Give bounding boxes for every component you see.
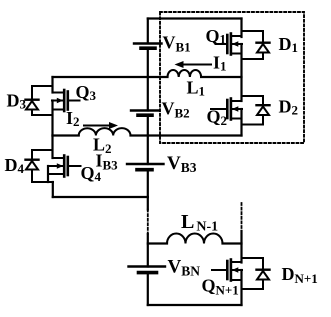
wire top rail node n0	[148, 17, 242, 19]
diode D4 anode lead	[32, 170, 53, 183]
wire battery column VB2 to node n2	[147, 115, 149, 135]
svg-text:LN-1: LN-1	[181, 211, 218, 235]
battery VB3	[127, 164, 164, 170]
svg-text:D3: D3	[7, 91, 27, 112]
diode D3 cathode lead	[32, 86, 53, 100]
wire battery column to VBN	[147, 234, 149, 267]
inductor L2	[79, 128, 131, 135]
diode D2 anode lead	[242, 115, 264, 125]
dotted module box	[160, 12, 304, 143]
wire Q4 source tie	[47, 166, 49, 182]
wire battery column below n3	[147, 197, 149, 210]
wire switch node column (Q1 source to Q2 drain)	[240, 44, 242, 101]
transistor Q_{N+1}	[212, 260, 242, 281]
wire Q_{N+1} source tie to bottom rail	[240, 270, 242, 305]
diode D_{N+1} anode lead	[242, 280, 264, 290]
diode D_{N+1}	[257, 270, 270, 280]
svg-text:VB2: VB2	[162, 99, 190, 121]
svg-text:VB1: VB1	[163, 33, 191, 55]
svg-text:L1: L1	[187, 78, 206, 99]
transistor Q1	[216, 34, 243, 55]
svg-text:Q3: Q3	[76, 82, 97, 103]
diode D3	[26, 100, 39, 110]
wire Q4 source to node n3	[52, 182, 54, 197]
transistor Q4	[48, 156, 81, 177]
svg-text:DN+1: DN+1	[282, 264, 318, 286]
wire Q2 source tie to node n2	[240, 109, 242, 136]
svg-text:D4: D4	[5, 155, 25, 176]
svg-text:VBN: VBN	[168, 257, 201, 279]
battery VB1	[134, 44, 162, 49]
svg-text:Q1: Q1	[206, 26, 227, 47]
svg-text:I2: I2	[66, 108, 80, 129]
wire battery column VB1 to node n1	[147, 48, 149, 77]
transistor Q2	[211, 99, 242, 120]
wire node n1 rail (left module top rail to L1)	[53, 76, 168, 78]
current arrow I2	[84, 122, 118, 129]
wire left column Q3 source to node n2	[51, 101, 53, 136]
wire battery column VB3 to node n3	[147, 170, 149, 197]
diode D1 anode lead	[242, 53, 264, 60]
inductor L_{N-1}	[167, 234, 223, 244]
wire left column drain segment Q3	[51, 77, 53, 93]
dotted continuation battery column	[147, 210, 149, 235]
wire node n3 rail (left module bottom rail)	[53, 196, 148, 198]
wire right column to Q_{N+1} drain	[240, 231, 242, 263]
inductor L1	[168, 70, 202, 77]
svg-text:D1: D1	[279, 34, 299, 55]
diode D3 anode lead	[32, 110, 53, 116]
wire battery column VBN to bottom rail	[147, 273, 149, 305]
diode D2	[257, 105, 270, 115]
wire battery column n1 to VB2	[147, 77, 149, 111]
diode D4 cathode lead	[32, 150, 53, 160]
wire battery column top segment	[147, 19, 149, 44]
battery VBN	[129, 267, 166, 273]
svg-text:VB3: VB3	[167, 153, 197, 175]
wire L_{N-1} left lead	[148, 242, 167, 244]
svg-text:QN+1: QN+1	[202, 276, 239, 298]
diode D4	[26, 160, 39, 170]
diode D1	[257, 43, 270, 53]
svg-text:I1: I1	[213, 53, 227, 74]
diode D_{N+1} cathode lead	[242, 258, 264, 270]
transistor Q3	[52, 90, 80, 111]
battery VB2	[131, 111, 159, 116]
diode D2 cathode lead	[242, 96, 264, 105]
wire right column drain segment Q1	[240, 19, 242, 38]
wire battery column n2 to VB3	[147, 136, 149, 165]
wire L_{N-1} right lead	[223, 242, 242, 244]
wire left column drain segment Q4	[51, 136, 53, 159]
wire node n2 rail right (L2 to Q2 source)	[131, 134, 242, 136]
dotted continuation right column	[241, 203, 243, 231]
wire L2 left lead	[53, 134, 79, 136]
svg-text:D2: D2	[279, 97, 299, 118]
diode D1 cathode lead	[242, 31, 264, 43]
wire bottom rail	[148, 304, 242, 306]
current arrow I1	[175, 61, 212, 68]
wire L1 to switch node column	[201, 76, 241, 78]
